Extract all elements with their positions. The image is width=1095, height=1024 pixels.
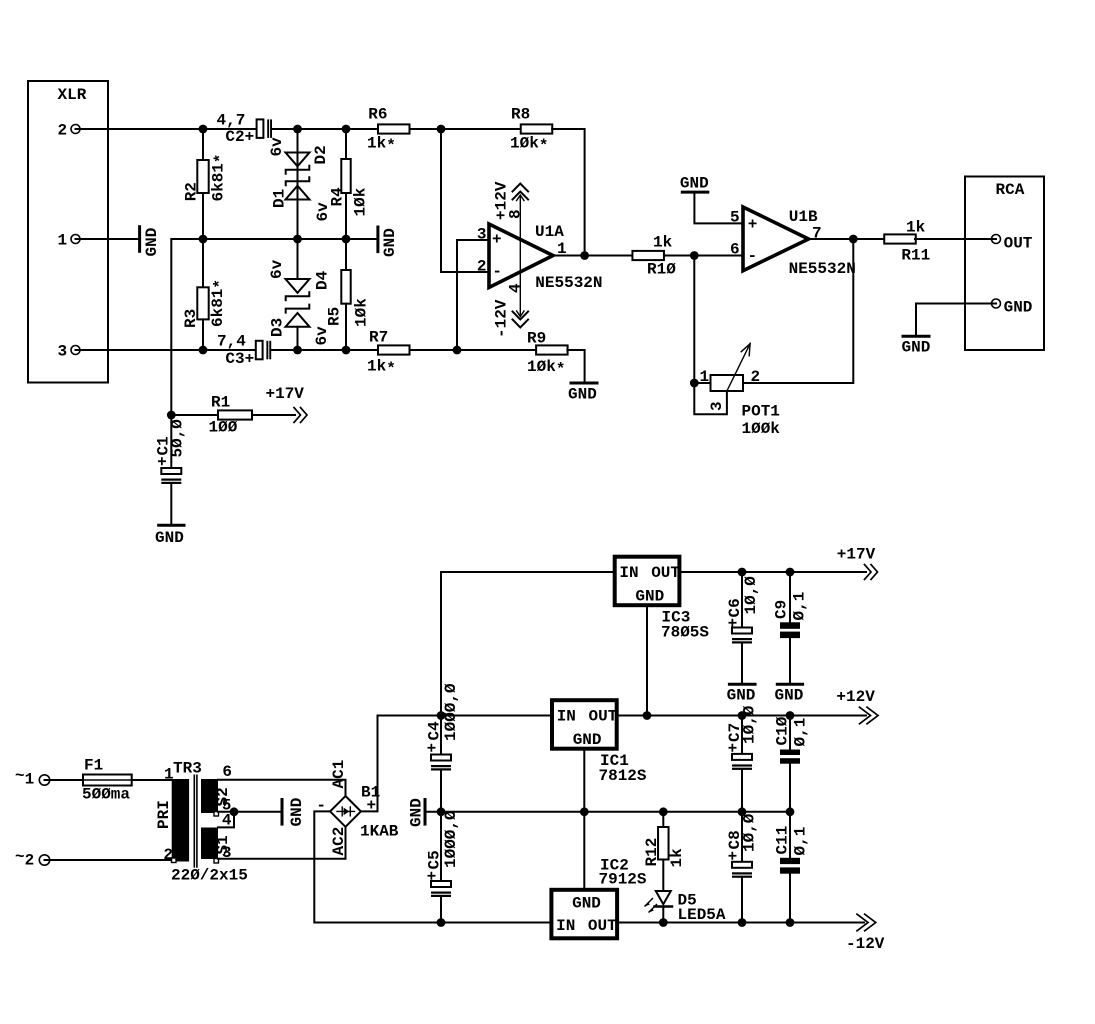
svg-text:+: + (748, 215, 758, 233)
regulator IC3 7805S (615, 557, 710, 642)
svg-text:1: 1 (164, 766, 174, 784)
svg-text:IN: IN (557, 708, 576, 726)
op-amp U1A NE5532N (477, 223, 603, 292)
capacitor C4 1000,0 (424, 683, 461, 812)
ground GND below C6 (727, 684, 756, 704)
node +17V rail C6 junction (738, 568, 747, 577)
wire RCA GND (916, 304, 996, 336)
svg-text:5: 5 (730, 209, 740, 227)
svg-text:6k81*: 6k81* (209, 153, 230, 201)
svg-text:GND: GND (381, 228, 399, 257)
svg-text:C9: C9 (773, 600, 791, 619)
svg-text:D2: D2 (312, 145, 330, 164)
svg-text:22Ø/2x15: 22Ø/2x15 (171, 867, 248, 885)
wire TR3 pin6 to bridge AC1 (218, 780, 346, 796)
diode D4 zener 6v (268, 259, 332, 300)
node C3/D3 junction (293, 346, 302, 355)
svg-text:+: + (492, 231, 502, 249)
svg-text:GND: GND (155, 529, 184, 547)
wire U1B output to R11 (809, 238, 886, 240)
wire R12 to D5 (662, 860, 664, 892)
wire bridge plus to +12V rail (361, 716, 552, 812)
svg-text:OUT: OUT (651, 564, 680, 582)
svg-text:GND: GND (775, 686, 804, 704)
svg-text:1Ø,Ø: 1Ø,Ø (741, 705, 759, 744)
ground GND at RCA (902, 336, 931, 356)
ground GND below C1 (155, 525, 184, 547)
svg-text:6v: 6v (268, 137, 286, 157)
wire XLR pin3 to C3 (76, 349, 256, 351)
supply +17V arrow at R1 (266, 385, 308, 422)
svg-text:6: 6 (730, 241, 740, 259)
XLR pin 1 (58, 232, 81, 250)
svg-text:D1: D1 (271, 189, 289, 208)
node R1/C1 junction (167, 411, 176, 420)
svg-text:-12V: -12V (493, 299, 511, 338)
supply -12V arrow (846, 914, 885, 953)
node 0V rail C10 junction (786, 807, 795, 816)
svg-text:C11: C11 (774, 826, 792, 855)
wire F1 to TR3 pin1 (132, 779, 172, 781)
svg-text:+17V: +17V (266, 385, 305, 403)
svg-text:+12V: +12V (493, 181, 511, 220)
ground GND above U1B (680, 175, 709, 193)
svg-text:GND: GND (143, 228, 161, 257)
wire R8 to output drop (552, 129, 584, 256)
svg-text:1Øk*: 1Øk* (510, 134, 548, 155)
svg-text:OUT: OUT (589, 708, 618, 726)
svg-text:U1B: U1B (789, 208, 818, 226)
svg-text:1ØØØ,Ø: 1ØØØ,Ø (442, 810, 460, 868)
svg-text:1Øk: 1Øk (352, 187, 370, 216)
capacitor C7 10,0 (725, 705, 759, 812)
capacitor C3 7,4 (217, 333, 271, 369)
svg-text:C5: C5 (426, 850, 444, 869)
XLR pin 3 (58, 343, 81, 361)
wire mid rail (203, 238, 377, 240)
wire POT1 pin3 loop (694, 383, 727, 414)
XLR pin 2 (58, 122, 81, 140)
svg-text:5Ø,Ø: 5Ø,Ø (169, 419, 187, 458)
svg-text:GND: GND (288, 798, 306, 827)
node +17V rail C9 junction (786, 568, 795, 577)
svg-text:2: 2 (477, 258, 487, 276)
terminal ~2 (15, 848, 50, 870)
svg-text:1Øk*: 1Øk* (527, 358, 565, 379)
svg-text:IN: IN (619, 564, 638, 582)
node U1B output junction (849, 235, 858, 244)
svg-text:LED5A: LED5A (678, 906, 726, 924)
wire C2 to zener node (272, 128, 378, 130)
svg-text:IN: IN (556, 917, 575, 935)
node R4 top junction (342, 125, 351, 134)
wire feedback node to U1A pin2 (441, 129, 489, 272)
svg-text:R8: R8 (511, 105, 530, 123)
node +12V rail C4 junction (437, 711, 446, 720)
svg-text:6k81*: 6k81* (209, 279, 230, 327)
wire TR3 pin3 to bridge AC2 (218, 827, 346, 859)
wire GND to U1B pin5 (694, 192, 743, 223)
svg-text:+: + (424, 871, 442, 881)
svg-text:GND: GND (635, 588, 664, 606)
node 0V rail R12 junction (659, 807, 668, 816)
svg-text:C4: C4 (426, 721, 444, 741)
svg-text:R6: R6 (368, 105, 387, 123)
wire +17V feed riser (441, 572, 615, 716)
capacitor C1 50,0 (154, 415, 187, 525)
svg-text:RCA: RCA (996, 181, 1025, 199)
node D1/D4 mid junction (293, 235, 302, 244)
supply +12V arrow (836, 688, 878, 724)
svg-text:OUT: OUT (1004, 235, 1033, 253)
svg-text:AC1: AC1 (330, 760, 348, 789)
ground GND below R9 (568, 383, 597, 404)
wire D5 to -12V rail (662, 907, 664, 923)
node -12V rail C11 junction (786, 918, 795, 927)
wire D1 to mid rail (297, 200, 299, 280)
RCA GND pin (992, 298, 1033, 316)
bridge rectifier B1 1KAB (316, 760, 398, 856)
svg-text:1Øk: 1Øk (353, 298, 371, 327)
wire IC2 GND to 0V rail (583, 812, 585, 890)
svg-text:4: 4 (507, 283, 525, 293)
wire IC1 GND to 0V rail (583, 749, 585, 812)
svg-text:NE5532N: NE5532N (535, 274, 602, 292)
fuse F1 500ma (82, 757, 132, 804)
capacitor C5 1000,0 (424, 810, 461, 923)
resistor R3 6k81* (182, 239, 230, 350)
svg-text:R5: R5 (326, 307, 344, 326)
resistor R5 10k (326, 239, 371, 350)
svg-text:AC2: AC2 (330, 827, 348, 856)
wire mid node to R1/C1 node (171, 239, 203, 415)
node R7/pin3 junction (453, 346, 462, 355)
resistor R6 1k* (367, 105, 410, 155)
U1A +12V supply pin 8 (493, 181, 529, 255)
svg-text:1ØØ: 1ØØ (209, 419, 238, 437)
svg-text:1k*: 1k* (367, 358, 396, 379)
svg-text:GND: GND (902, 339, 931, 357)
U1A -12V supply pin 4 (493, 256, 529, 338)
node -12V rail D5 junction (659, 918, 668, 927)
resistor R4 10k (329, 129, 370, 239)
node pin2/R2 junction (199, 125, 208, 134)
svg-text:R7: R7 (369, 329, 388, 347)
resistor R1 100 (171, 394, 295, 437)
svg-text:S1: S1 (214, 835, 232, 854)
svg-text:TR3: TR3 (173, 760, 202, 778)
svg-text:-12V: -12V (846, 935, 885, 953)
svg-text:XLR: XLR (58, 86, 87, 104)
potentiometer POT1 100k (694, 344, 780, 438)
wire TR3 pin4 jog (218, 812, 234, 828)
ground GND at XLR pin1 (140, 227, 161, 257)
svg-text:GND: GND (568, 386, 597, 404)
resistor R7 1k* (367, 329, 410, 379)
svg-text:78Ø5S: 78Ø5S (661, 624, 709, 642)
node feedback top junction (437, 125, 446, 134)
diode D3 zener 6v (269, 305, 332, 346)
svg-text:GND: GND (408, 798, 426, 827)
svg-text:1ØØØ,Ø: 1ØØØ,Ø (442, 683, 460, 741)
svg-text:S2: S2 (214, 787, 232, 806)
wire POT1 pin2 to output (743, 239, 853, 383)
diode D1 zener 6v (271, 177, 333, 221)
resistor R11 1k (884, 219, 930, 265)
regulator IC1 7812S (552, 700, 647, 785)
svg-text:+17V: +17V (837, 546, 876, 564)
regulator IC2 7912S (551, 857, 647, 939)
wire TR3 pin5 center tap (218, 811, 281, 813)
wire IC3 GND to +12V rail (646, 605, 648, 715)
node C2/D2 junction (293, 125, 302, 134)
svg-text:GND: GND (573, 731, 602, 749)
resistor R9 10k* (527, 330, 568, 379)
capacitor C6 10,0 (725, 572, 761, 683)
wire R9 to GND (567, 350, 584, 382)
ground GND at mid rail (378, 227, 399, 257)
node -12V rail C5 junction (437, 918, 446, 927)
svg-text:3: 3 (477, 226, 487, 244)
svg-text:-: - (492, 263, 502, 281)
resistor R2 6k81* (182, 129, 230, 239)
svg-text:1: 1 (700, 368, 710, 386)
svg-text:1k: 1k (668, 848, 686, 868)
svg-text:7,4: 7,4 (217, 333, 246, 351)
node IC GND junction (580, 807, 589, 816)
svg-text:3: 3 (58, 343, 68, 361)
wire IC2 OUT -12V rail (617, 922, 864, 924)
svg-text:+: + (424, 743, 442, 753)
svg-text:OUT: OUT (588, 917, 617, 935)
node U1A output junction (580, 251, 589, 260)
svg-text:-: - (748, 247, 758, 265)
RCA connector J2 (965, 177, 1044, 351)
svg-text:GND: GND (727, 686, 756, 704)
svg-text:Ø,1: Ø,1 (792, 827, 810, 856)
svg-text:NE5532N: NE5532N (789, 260, 856, 278)
node R2/R3 mid junction (199, 235, 208, 244)
svg-text:R4: R4 (329, 187, 347, 207)
svg-text:C3+: C3+ (225, 350, 254, 368)
wire bridge minus to -12V rail (314, 811, 551, 922)
svg-text:GND: GND (1004, 298, 1033, 316)
svg-text:2: 2 (58, 122, 68, 140)
node R3/pin3 junction (199, 346, 208, 355)
wire R11 to RCA OUT (915, 238, 996, 240)
node POT1 pin1 junction (690, 379, 699, 388)
node IC3 GND junction (643, 711, 652, 720)
svg-text:4,7: 4,7 (217, 111, 246, 129)
wire zener column top (297, 129, 299, 153)
wire C3 to R7 (272, 349, 378, 351)
svg-text:Ø,1: Ø,1 (792, 718, 810, 747)
svg-text:5ØØma: 5ØØma (82, 786, 130, 804)
node -12V rail C8 junction (738, 918, 747, 927)
svg-text:1k*: 1k* (367, 134, 396, 155)
diode D2 zener 6v (268, 137, 330, 174)
wire IC1 OUT +12V rail (617, 715, 866, 717)
transformer TR3 220/2x15 (155, 760, 248, 885)
svg-text:1KAB: 1KAB (360, 823, 399, 841)
wire pin3 riser (457, 240, 489, 350)
svg-text:R12: R12 (643, 838, 661, 867)
svg-text:PRI: PRI (155, 800, 173, 829)
wire R10 to U1B pin6 (664, 255, 743, 257)
svg-text:D3: D3 (269, 318, 287, 337)
wire XLR pin1 to GND (76, 238, 139, 240)
node mid-rail R4 junction (342, 235, 351, 244)
wire ~1 to F1 (45, 779, 84, 781)
ground GND at 0V rail (408, 798, 426, 827)
node 0V rail C7 junction (738, 807, 747, 816)
node 0V rail C4 junction (437, 807, 446, 816)
terminal ~1 (15, 767, 50, 789)
capacitor C9 0,1 (773, 572, 809, 683)
ground GND at center tap (282, 798, 306, 827)
svg-text:1Ø,Ø: 1Ø,Ø (741, 813, 759, 852)
svg-text:C1Ø: C1Ø (774, 716, 792, 745)
svg-text:POT1: POT1 (742, 403, 780, 421)
node center-tap junction (230, 807, 239, 816)
node +12V rail C10 junction (786, 711, 795, 720)
RCA OUT pin (992, 235, 1033, 253)
wire zener mid gap (297, 153, 299, 240)
wire XLR pin2 to C2/R2 node (76, 128, 257, 130)
wire POT1 riser (693, 256, 695, 384)
svg-text:1k: 1k (653, 234, 673, 252)
capacitor C8 10,0 (725, 812, 759, 923)
capacitor C11 0,1 (774, 812, 810, 923)
wire 0V rail (427, 811, 791, 813)
svg-text:R11: R11 (901, 246, 930, 264)
svg-text:+12V: +12V (836, 688, 875, 706)
svg-text:Ø,1: Ø,1 (791, 592, 809, 621)
resistor R10 1k (632, 234, 676, 279)
node R10/POT1 junction (690, 251, 699, 260)
svg-text:GND: GND (680, 175, 709, 193)
svg-text:R9: R9 (527, 330, 546, 348)
svg-text:U1A: U1A (535, 223, 564, 241)
wire R6 to feedback node (410, 128, 521, 130)
capacitor C2 4,7 (217, 111, 273, 146)
wire IC3 OUT +17V rail (679, 571, 866, 573)
svg-text:7812S: 7812S (599, 767, 647, 785)
svg-text:R2: R2 (182, 182, 200, 201)
supply +17V arrow (837, 546, 878, 580)
svg-text:R3: R3 (182, 309, 200, 328)
svg-text:6v: 6v (313, 326, 331, 346)
ground GND below C9 (775, 684, 804, 704)
svg-text:C2+: C2+ (225, 128, 254, 146)
svg-text:6: 6 (222, 763, 232, 781)
svg-text:F1: F1 (84, 757, 103, 775)
svg-text:+: + (725, 618, 743, 628)
wire D3 to bottom rail (297, 327, 299, 350)
op-amp U1B NE5532N (730, 207, 856, 278)
wire ~2 to TR3 pin2 (45, 859, 172, 861)
svg-text:7912S: 7912S (599, 871, 647, 889)
node +12V rail C7 junction (738, 711, 747, 720)
svg-text:R1Ø: R1Ø (647, 261, 676, 279)
svg-text:3: 3 (708, 401, 726, 411)
svg-text:1ØØk: 1ØØk (742, 420, 781, 438)
svg-text:1k: 1k (906, 219, 926, 237)
wire U1A output (553, 255, 632, 257)
svg-text:D4: D4 (314, 270, 332, 290)
resistor R12 1k (643, 812, 686, 868)
svg-text:GND: GND (572, 895, 601, 913)
wire R7 to R9 (410, 349, 537, 351)
svg-text:1: 1 (58, 232, 68, 250)
node R5 bottom junction (342, 346, 351, 355)
svg-text:R1: R1 (211, 394, 230, 412)
resistor R8 10k* (510, 105, 552, 155)
XLR connector J1 (28, 81, 108, 383)
svg-text:6v: 6v (268, 259, 286, 279)
capacitor C10 0,1 (774, 716, 810, 812)
svg-text:1Ø,Ø: 1Ø,Ø (742, 576, 760, 615)
diode D5 LED5A (644, 891, 726, 924)
